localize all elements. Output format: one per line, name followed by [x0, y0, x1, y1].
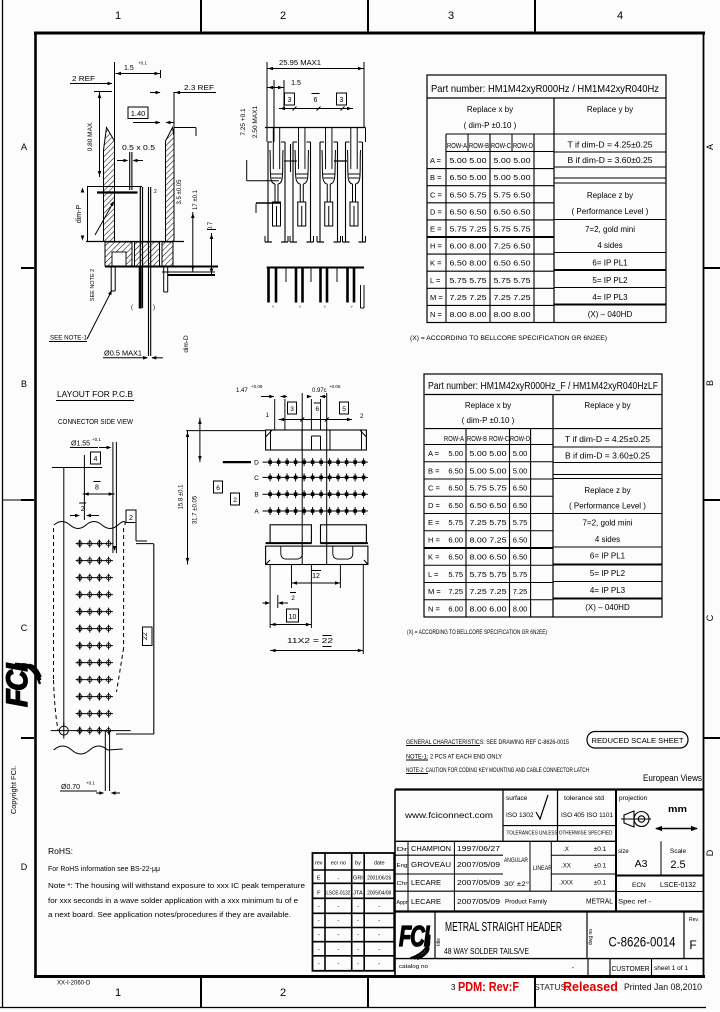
svg-text:3.5 ±0.05: 3.5 ±0.05: [177, 179, 183, 205]
svg-text:K =: K =: [428, 553, 440, 562]
svg-text:NOTE-1: 2 PCS AT EACH END ONLY: NOTE-1: 2 PCS AT EACH END ONLY: [406, 754, 502, 761]
svg-text:-: -: [357, 961, 359, 967]
svg-text:Note *: The housing will withs: Note *: The housing will withstand expos…: [48, 883, 305, 890]
svg-text:-: -: [318, 947, 320, 953]
svg-text:XX-I-2060-D: XX-I-2060-D: [57, 981, 91, 987]
svg-text:8.00 7.25: 8.00 7.25: [470, 535, 507, 544]
svg-text:A: A: [21, 142, 27, 152]
svg-text:2: 2: [233, 497, 237, 504]
svg-text:JTA: JTA: [353, 891, 363, 897]
svg-text:2007/05/09: 2007/05/09: [457, 860, 500, 869]
svg-text:-: -: [378, 904, 380, 910]
svg-text:-: -: [337, 876, 339, 882]
svg-text:6.50 6.50: 6.50 6.50: [494, 259, 531, 268]
svg-text:8.00 6.00: 8.00 6.00: [470, 604, 507, 613]
svg-text:-: -: [378, 947, 380, 953]
svg-text:by: by: [355, 861, 361, 867]
svg-text:-: -: [357, 947, 359, 953]
svg-text:( Performance Level ): ( Performance Level ): [572, 207, 649, 216]
svg-text:www.fciconnect.com: www.fciconnect.com: [404, 811, 494, 820]
svg-text:+0.1: +0.1: [92, 437, 101, 442]
svg-text:6.50: 6.50: [448, 553, 463, 562]
svg-text:B: B: [21, 379, 27, 389]
svg-text:7.25: 7.25: [513, 587, 528, 596]
svg-text:Dr: Dr: [397, 847, 408, 853]
svg-text:5.00 5.00: 5.00 5.00: [450, 156, 487, 165]
svg-text:-: -: [337, 904, 339, 910]
svg-text:REDUCED SCALE SHEET: REDUCED SCALE SHEET: [592, 736, 684, 745]
svg-text:ROW-D: ROW-D: [513, 143, 533, 150]
svg-text:6.50: 6.50: [513, 484, 528, 493]
svg-text:-: -: [357, 904, 359, 910]
svg-text:M =: M =: [430, 293, 443, 302]
svg-text:2: 2: [280, 10, 286, 22]
svg-text:LSCE-0132: LSCE-0132: [326, 891, 350, 897]
svg-text:L =: L =: [430, 276, 441, 285]
svg-text:4 sides: 4 sides: [595, 535, 620, 544]
svg-text:Product Family: Product Family: [505, 899, 548, 906]
svg-text:0.5 x 0.5: 0.5 x 0.5: [122, 145, 155, 152]
svg-text:8.00 8.00: 8.00 8.00: [494, 310, 531, 319]
svg-text:-: -: [337, 961, 339, 967]
svg-text:A3: A3: [635, 858, 648, 870]
svg-text:D: D: [21, 862, 28, 872]
svg-text:dim-D: dim-D: [183, 335, 190, 353]
svg-text:5.75 5.75: 5.75 5.75: [470, 570, 507, 579]
svg-text:5.75 7.25: 5.75 7.25: [450, 224, 487, 233]
svg-text:FCI: FCI: [1, 663, 34, 707]
svg-text:ROW-A: ROW-A: [444, 436, 464, 443]
svg-text:T if dim-D = 4.25±0.25: T if dim-D = 4.25±0.25: [565, 435, 651, 444]
svg-text:6.00: 6.00: [448, 604, 463, 613]
svg-text:7=2, gold mini: 7=2, gold mini: [585, 225, 635, 234]
svg-text:2: 2: [291, 595, 295, 602]
svg-text:SEE NOTE-1: SEE NOTE-1: [50, 336, 88, 342]
svg-text:Chr: Chr: [397, 881, 408, 887]
svg-text:6.50: 6.50: [513, 553, 528, 562]
svg-text:CUSTOMER: CUSTOMER: [612, 964, 651, 973]
svg-text:surface: surface: [506, 795, 528, 802]
svg-text:ISO 405 ISO 1101: ISO 405 ISO 1101: [561, 812, 613, 819]
svg-text:A: A: [254, 509, 259, 516]
svg-text:1: 1: [115, 10, 121, 22]
svg-text:2: 2: [81, 506, 85, 513]
svg-text:6.50: 6.50: [513, 535, 528, 544]
svg-text:): ): [153, 305, 155, 311]
svg-text:GRI: GRI: [353, 876, 363, 882]
svg-text:6: 6: [216, 485, 220, 492]
svg-text:H =: H =: [430, 242, 443, 251]
svg-text:dim-P: dim-P: [76, 205, 83, 224]
svg-text:2.3 REF: 2.3 REF: [184, 85, 214, 92]
svg-text:-: -: [318, 918, 320, 924]
svg-text:3: 3: [340, 97, 344, 104]
svg-text:3: 3: [290, 406, 294, 413]
svg-text:±0.1: ±0.1: [594, 880, 607, 887]
svg-text:3: 3: [288, 97, 292, 104]
svg-text:NOTE-2: CAUTION FOR CODING KEY: NOTE-2: CAUTION FOR CODING KEY MOUNTING …: [406, 767, 589, 774]
svg-text:( Performance Level ): ( Performance Level ): [569, 502, 646, 511]
svg-text:Rev.: Rev.: [689, 917, 699, 923]
svg-text:PDM: Rev:F: PDM: Rev:F: [458, 980, 519, 994]
svg-text:GENERAL CHARACTERISTICS: SEE D: GENERAL CHARACTERISTICS: SEE DRAWING REF…: [406, 739, 569, 746]
svg-text:11X2 = 22: 11X2 = 22: [287, 638, 333, 645]
svg-text:C: C: [254, 475, 259, 482]
svg-text:22: 22: [142, 632, 149, 640]
svg-text:C: C: [705, 614, 715, 621]
svg-text:-: -: [337, 947, 339, 953]
svg-text:4= IP PL3: 4= IP PL3: [592, 293, 628, 302]
svg-text:31.7 ±0.05: 31.7 ±0.05: [193, 495, 199, 524]
svg-text:Eng: Eng: [397, 863, 408, 869]
svg-text:6: 6: [315, 406, 319, 413]
svg-text:6.50 6.50: 6.50 6.50: [450, 207, 487, 216]
svg-text:5.75 5.75: 5.75 5.75: [450, 276, 487, 285]
svg-text:6.00: 6.00: [448, 535, 463, 544]
svg-text:5.75 5.75: 5.75 5.75: [494, 224, 531, 233]
svg-text:6.50: 6.50: [448, 466, 463, 475]
svg-text:LECARE: LECARE: [411, 878, 441, 887]
svg-text:2007/05/09: 2007/05/09: [457, 878, 500, 887]
svg-text:CONNECTOR SIDE VIEW: CONNECTOR SIDE VIEW: [58, 419, 133, 426]
svg-text:dwg no: dwg no: [588, 929, 594, 945]
svg-text:4: 4: [617, 10, 623, 22]
svg-text:-: -: [357, 933, 359, 939]
svg-text:2005/04/08: 2005/04/08: [367, 891, 391, 897]
svg-text:LINEAR: LINEAR: [533, 865, 552, 872]
svg-text:1: 1: [115, 987, 121, 999]
svg-text:Ø0.5 MAX1: Ø0.5 MAX1: [104, 351, 142, 358]
svg-text:D: D: [705, 849, 715, 856]
svg-text:C =: C =: [430, 190, 443, 199]
svg-text:ECN: ECN: [632, 882, 646, 889]
svg-text:H =: H =: [428, 535, 441, 544]
svg-text:catalog no: catalog no: [399, 964, 428, 970]
svg-text:5.00: 5.00: [513, 449, 528, 458]
svg-text:ecr no: ecr no: [331, 861, 346, 867]
svg-text:Copyright FCI.: Copyright FCI.: [9, 766, 18, 814]
svg-text:5.75 5.75: 5.75 5.75: [470, 484, 507, 493]
svg-text:Replace x by: Replace x by: [467, 105, 513, 114]
svg-text:ROW-B: ROW-B: [469, 143, 489, 150]
svg-text:( dim-P ±0.10 ): ( dim-P ±0.10 ): [462, 416, 515, 425]
svg-text:2: 2: [280, 987, 286, 999]
svg-text:-: -: [337, 918, 339, 924]
svg-text:(X) – 040HD: (X) – 040HD: [585, 603, 630, 612]
svg-text:METRAL STRAIGHT HEADER: METRAL STRAIGHT HEADER: [445, 920, 562, 934]
svg-text:1.47: 1.47: [236, 388, 248, 394]
svg-text:ANGULAR: ANGULAR: [504, 858, 529, 864]
svg-text:±0.1: ±0.1: [594, 863, 607, 870]
svg-text:3: 3: [448, 10, 454, 22]
svg-text:title: title: [436, 938, 442, 946]
svg-text:15.8 ±0.1: 15.8 ±0.1: [179, 484, 185, 510]
svg-text:5.75: 5.75: [448, 518, 463, 527]
svg-text:Part number: HM1M42xyR000Hz_F: Part number: HM1M42xyR000Hz_F / HM1M42xy…: [428, 381, 658, 392]
svg-text:6.50 6.50: 6.50 6.50: [470, 501, 507, 510]
svg-text:8.00 8.00: 8.00 8.00: [450, 310, 487, 319]
svg-text:B =: B =: [430, 173, 442, 182]
svg-text:.XX: .XX: [561, 864, 571, 870]
svg-text:sheet 1 of 1: sheet 1 of 1: [654, 966, 689, 972]
svg-text:Replace y by: Replace y by: [584, 401, 630, 410]
svg-text:TOLERANCES UNLESS OTHERWISE SP: TOLERANCES UNLESS OTHERWISE SPECIFIED: [507, 831, 613, 837]
svg-text:12: 12: [312, 573, 320, 580]
svg-text:ROW-D: ROW-D: [510, 436, 530, 443]
svg-text:N =: N =: [428, 604, 441, 613]
svg-text:(X) – 040HD: (X) – 040HD: [588, 310, 633, 319]
svg-text:2001/06/26: 2001/06/26: [367, 876, 391, 882]
svg-text:E: E: [317, 876, 321, 882]
svg-text:8: 8: [95, 485, 99, 492]
svg-text:-: -: [318, 904, 320, 910]
svg-text:ROW-C: ROW-C: [491, 143, 511, 150]
svg-text:5.00 5.00: 5.00 5.00: [494, 173, 531, 182]
svg-text:3: 3: [451, 983, 456, 992]
svg-text:CHAMPION: CHAMPION: [411, 844, 451, 853]
svg-text:8.00: 8.00: [513, 604, 528, 613]
svg-text:6.50 8.00: 6.50 8.00: [450, 259, 487, 268]
svg-text:5.00 5.00: 5.00 5.00: [470, 449, 507, 458]
svg-text:L =: L =: [428, 570, 439, 579]
svg-text:Replace z by: Replace z by: [587, 191, 633, 200]
svg-text:ISO 1302: ISO 1302: [506, 812, 534, 819]
svg-text:B: B: [705, 380, 715, 386]
svg-text:7.25 7.25: 7.25 7.25: [450, 293, 487, 302]
svg-text:6.50 5.00: 6.50 5.00: [450, 173, 487, 182]
svg-text:a next board. See application: a next board. See application notes/proc…: [48, 912, 291, 919]
svg-text:7.25 +0.1: 7.25 +0.1: [240, 108, 247, 136]
svg-text:Printed Jan 08,2010: Printed Jan 08,2010: [624, 982, 702, 993]
svg-text:For RoHS information see BS-22: For RoHS information see BS-22-μμ: [48, 866, 160, 873]
svg-text:A: A: [705, 144, 715, 150]
svg-text:48 WAY SOLDER TAILS/VE: 48 WAY SOLDER TAILS/VE: [444, 947, 529, 956]
svg-text:.X: .X: [563, 847, 569, 853]
svg-text:±0.1: ±0.1: [594, 846, 607, 853]
svg-text:C =: C =: [428, 484, 441, 493]
svg-text:30' ±2°: 30' ±2°: [504, 880, 529, 888]
svg-text:size: size: [618, 849, 629, 855]
svg-text:-: -: [378, 918, 380, 924]
svg-text:-: -: [378, 933, 380, 939]
svg-text:2007/05/09: 2007/05/09: [457, 897, 500, 906]
svg-text:Spec ref -: Spec ref -: [618, 899, 651, 906]
svg-text:6= IP PL1: 6= IP PL1: [590, 552, 626, 561]
svg-text:1.5: 1.5: [291, 80, 301, 87]
svg-text:7.25 7.25: 7.25 7.25: [494, 293, 531, 302]
svg-text:D: D: [254, 460, 259, 467]
svg-text:5.75: 5.75: [513, 518, 528, 527]
svg-text:ROW-C: ROW-C: [489, 436, 509, 443]
svg-text:Replace z by: Replace z by: [584, 486, 630, 495]
svg-text:tolerance std: tolerance std: [564, 795, 604, 802]
svg-text:for xxx seconds in a wave sold: for xxx seconds in a wave solder applica…: [48, 898, 298, 905]
svg-text:+0.1: +0.1: [86, 781, 95, 786]
svg-text:projection: projection: [619, 795, 648, 802]
svg-text:rev: rev: [315, 861, 323, 867]
svg-text:LAYOUT FOR P.C.B: LAYOUT FOR P.C.B: [57, 390, 133, 399]
svg-text:(: (: [131, 305, 133, 311]
svg-text:6.00 8.00: 6.00 8.00: [450, 242, 487, 251]
svg-text:RoHS:: RoHS:: [48, 846, 73, 856]
svg-text:2.5: 2.5: [670, 859, 685, 871]
svg-text:+0.09: +0.09: [251, 384, 263, 389]
svg-text:6.50: 6.50: [448, 501, 463, 510]
svg-text:Ø1.55: Ø1.55: [71, 441, 90, 448]
svg-text:D =: D =: [428, 501, 441, 510]
svg-text:Released: Released: [563, 980, 618, 994]
svg-text:( dim-P ±0.10 ): ( dim-P ±0.10 ): [464, 121, 517, 130]
svg-text:5.75 5.75: 5.75 5.75: [494, 276, 531, 285]
svg-text:7.25 7.25: 7.25 7.25: [470, 587, 507, 596]
svg-text:ROW-B: ROW-B: [467, 436, 487, 443]
svg-text:0.80 MAX: 0.80 MAX: [87, 122, 94, 151]
svg-text:0.7: 0.7: [208, 221, 214, 230]
svg-text:17 ±0.1: 17 ±0.1: [193, 189, 199, 210]
svg-text:ROW-A: ROW-A: [447, 143, 467, 150]
svg-text:-: -: [378, 961, 380, 967]
svg-text:4 sides: 4 sides: [597, 241, 622, 250]
svg-text:T if dim-D = 4.25±0.25: T if dim-D = 4.25±0.25: [568, 141, 654, 150]
svg-text:K =: K =: [430, 259, 442, 268]
svg-text:2.50 MAX1: 2.50 MAX1: [252, 106, 259, 139]
svg-text:A =: A =: [430, 156, 442, 165]
svg-text:5.00: 5.00: [448, 449, 463, 458]
svg-text:LSCE-0132: LSCE-0132: [660, 882, 696, 889]
svg-text:6: 6: [314, 97, 318, 104]
svg-text:10: 10: [289, 614, 297, 621]
svg-text:1997/06/27: 1997/06/27: [457, 844, 500, 853]
svg-text:European Views: European Views: [643, 773, 702, 783]
svg-text:.XXX: .XXX: [559, 881, 573, 887]
svg-text:B =: B =: [428, 466, 440, 475]
svg-text:6= IP PL1: 6= IP PL1: [592, 259, 628, 268]
svg-text:Appr: Appr: [397, 900, 408, 906]
svg-text:-: -: [337, 933, 339, 939]
svg-text:+0.05: +0.05: [329, 384, 341, 389]
svg-text:B: B: [254, 492, 258, 499]
svg-text:5.00: 5.00: [513, 466, 528, 475]
svg-text:E =: E =: [430, 224, 442, 233]
svg-text:mm: mm: [668, 804, 687, 815]
svg-text:Replace x by: Replace x by: [465, 401, 511, 410]
svg-text:D =: D =: [430, 207, 443, 216]
svg-text:6.50 5.75: 6.50 5.75: [450, 190, 487, 199]
svg-text:7.25 5.75: 7.25 5.75: [470, 518, 507, 527]
svg-text:METRAL: METRAL: [586, 899, 613, 906]
svg-text:2: 2: [154, 189, 157, 195]
svg-text:Scale: Scale: [670, 848, 687, 855]
svg-text:6.50: 6.50: [448, 484, 463, 493]
svg-text:2 REF: 2 REF: [72, 76, 95, 83]
svg-text:N =: N =: [430, 310, 443, 319]
svg-text:(X) = ACCORDING TO BELLCORE SP: (X) = ACCORDING TO BELLCORE SPECIFICATIO…: [407, 630, 547, 636]
svg-text:1.5: 1.5: [124, 65, 134, 72]
svg-text:-: -: [318, 961, 320, 967]
svg-text:F: F: [689, 938, 696, 952]
svg-text:date: date: [374, 861, 385, 867]
svg-text:7.25: 7.25: [448, 587, 463, 596]
svg-text:6.50: 6.50: [513, 501, 528, 510]
svg-text:(X) = ACCORDING TO BELLCORE SP: (X) = ACCORDING TO BELLCORE SPECIFICATIO…: [410, 336, 607, 342]
svg-text:8.00 6.50: 8.00 6.50: [470, 553, 507, 562]
svg-text:Part number: HM1M42xyR000Hz /: Part number: HM1M42xyR000Hz / HM1M42xyR0…: [431, 83, 659, 95]
svg-text:B if dim-D = 3.60±0.25: B if dim-D = 3.60±0.25: [568, 156, 654, 165]
svg-text:C-8626-0014: C-8626-0014: [609, 935, 676, 950]
svg-text:5.75: 5.75: [513, 570, 528, 579]
svg-text:Replace y by: Replace y by: [587, 105, 633, 114]
svg-text:5= IP PL2: 5= IP PL2: [592, 276, 628, 285]
svg-text:5.75 6.50: 5.75 6.50: [494, 190, 531, 199]
svg-text:SEE NOTE 2: SEE NOTE 2: [90, 269, 96, 301]
svg-text:GROVEAU: GROVEAU: [411, 860, 451, 869]
svg-text:2: 2: [129, 515, 133, 522]
svg-text:-: -: [357, 918, 359, 924]
svg-text:-: -: [318, 933, 320, 939]
svg-text:5= IP PL2: 5= IP PL2: [590, 569, 626, 578]
svg-text:M =: M =: [428, 587, 441, 596]
svg-text:5: 5: [342, 406, 346, 413]
svg-text:E =: E =: [428, 518, 440, 527]
svg-text:+0.1: +0.1: [138, 61, 147, 66]
svg-text:4= IP PL3: 4= IP PL3: [590, 586, 626, 595]
svg-text:5.00 5.00: 5.00 5.00: [494, 156, 531, 165]
svg-text:7=2, gold mini: 7=2, gold mini: [582, 519, 632, 528]
svg-text:LECARE: LECARE: [411, 897, 441, 906]
svg-text:25.95 MAX1: 25.95 MAX1: [279, 60, 321, 67]
svg-text:5.00 5.00: 5.00 5.00: [470, 466, 507, 475]
svg-text:A =: A =: [428, 449, 440, 458]
svg-text:0.97c: 0.97c: [312, 388, 327, 394]
svg-text:7.25 6.50: 7.25 6.50: [494, 242, 531, 251]
svg-text:5.75: 5.75: [448, 570, 463, 579]
svg-text:1.40: 1.40: [131, 109, 146, 118]
svg-text:Ø0.70: Ø0.70: [61, 784, 80, 791]
svg-text:6.50 6.50: 6.50 6.50: [494, 207, 531, 216]
svg-text:B if dim-D = 3.60±0.25: B if dim-D = 3.60±0.25: [565, 452, 651, 461]
svg-text:4: 4: [94, 456, 98, 463]
svg-text:C: C: [21, 623, 28, 633]
